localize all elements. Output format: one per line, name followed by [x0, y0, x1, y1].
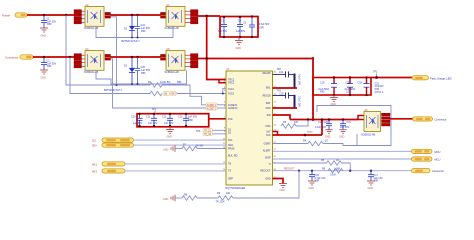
svg-text:1uF 50V: 1uF 50V	[236, 30, 245, 33]
svg-text:GND: GND	[167, 136, 173, 139]
IC U1 left pin names	[228, 79, 238, 181]
wire TRC2 stub	[219, 80, 226, 83]
capacitor C10	[137, 114, 143, 126]
svg-text:R50: R50	[141, 30, 146, 33]
svg-text:SCB0021-AB: SCB0021-AB	[361, 134, 376, 137]
wire loop1	[96, 26, 173, 37]
ground C19	[325, 130, 332, 134]
svg-text:TRC2: TRC2	[228, 82, 235, 85]
capacitor C11	[151, 114, 157, 126]
svg-text:C14: C14	[279, 71, 284, 74]
wire bank3 rect	[137, 114, 209, 127]
wire row1 mid	[111, 14, 161, 16]
node junction row1 C1	[43, 14, 46, 17]
pin stubs U3 left	[161, 12, 166, 18]
svg-text:TAC2: TAC2	[228, 93, 235, 96]
svg-text:SDA: SDA	[228, 144, 233, 147]
svg-text:1uF 50V: 1uF 50V	[164, 122, 173, 125]
capacitor C17	[368, 171, 374, 181]
ground below C1	[40, 28, 48, 32]
svg-text:REG18: REG18	[263, 95, 272, 98]
wire ACDET2 route	[111, 59, 207, 108]
wire ACDET1 stub	[217, 104, 226, 106]
capacitor C8	[366, 78, 368, 84]
resistor R1 on sense line	[150, 83, 162, 87]
IC U1 right pin numbers	[274, 71, 277, 178]
port I2C_SCL pill	[102, 138, 134, 142]
port WK2 pill	[102, 169, 125, 173]
resistor R8 bottom	[175, 197, 182, 199]
svg-text:GND: GND	[280, 189, 286, 192]
svg-text:1uF 50V: 1uF 50V	[133, 122, 142, 125]
capacitor C13	[183, 114, 189, 126]
wire bank2 feed to LED port	[371, 77, 412, 79]
wire SW to feed	[273, 115, 291, 120]
node junctions REGOUT	[298, 170, 300, 172]
ground C17	[367, 181, 375, 185]
svg-text:1uF 50V: 1uF 50V	[340, 126, 349, 129]
svg-text:X5R: X5R	[259, 26, 264, 29]
wire SxC riser	[321, 120, 323, 136]
svg-text:ALERT: ALERT	[263, 150, 271, 153]
resistor R3 CHG	[281, 124, 296, 128]
transceiver U3 pin block right	[191, 10, 199, 24]
svg-text:PxD: PxD	[228, 118, 233, 121]
resistor R7 PRAS	[175, 148, 182, 150]
capacitor C19	[326, 120, 332, 130]
wire BAT pin	[273, 107, 298, 109]
capacitor C24	[135, 15, 140, 38]
svg-text:BZT52C4V7LP-7: BZT52C4V7LP-7	[122, 40, 141, 43]
svg-text:SCL: SCL	[92, 140, 97, 142]
svg-text:TI: TI	[268, 163, 270, 166]
svg-text:1uF 50V: 1uF 50V	[218, 30, 227, 33]
node junction row2 C2	[43, 56, 46, 59]
transorb U2 pin block left	[74, 10, 82, 24]
IC U1 right pin names	[260, 72, 271, 181]
wire PxD feed	[209, 118, 226, 120]
svg-text:GND: GND	[325, 135, 331, 138]
svg-text:TP1: TP1	[373, 71, 378, 74]
ground IC	[279, 184, 287, 188]
wire row1 main	[27, 14, 76, 16]
ground below C2	[40, 70, 48, 74]
wire navy drop 2	[294, 95, 296, 108]
node junction D1	[131, 14, 134, 17]
net label ACDET1	[206, 103, 217, 107]
ground PRAS chain	[171, 145, 175, 152]
IC U1 left pin numbers	[223, 78, 226, 171]
svg-text:1.00K: 1.00K	[334, 167, 341, 170]
svg-text:GND: GND	[368, 187, 374, 190]
wire TI with resistor R5	[273, 162, 327, 164]
port Connector2 pill	[413, 117, 433, 121]
capacitor C2	[41, 57, 47, 70]
svg-text:GND: GND	[236, 47, 242, 50]
svg-text:GND: GND	[41, 35, 47, 38]
capacitor C12	[167, 114, 173, 126]
svg-text:BQ7791500RGER: BQ7791500RGER	[226, 187, 246, 190]
svg-text:SCB0021-AB: SCB0021-AB	[165, 27, 180, 30]
port ON_TLP pill	[412, 149, 433, 153]
net label ACDET2	[206, 107, 217, 111]
wire row2 main	[33, 56, 76, 58]
node junction top of rail	[205, 15, 208, 18]
svg-text:MCU: MCU	[435, 158, 441, 162]
wire WK2	[125, 170, 226, 172]
node junction D2	[131, 56, 134, 59]
svg-text:WK1: WK1	[92, 164, 98, 166]
svg-text:C12: C12	[162, 116, 167, 119]
transceiver U3 body	[166, 7, 185, 27]
svg-text:TP1: TP1	[152, 108, 157, 111]
node junction row1 sense	[65, 14, 68, 17]
testpoint label TP7	[203, 132, 213, 135]
node bank2 junctions	[333, 76, 335, 78]
capacitor C6	[333, 78, 335, 84]
svg-text:SB: SB	[164, 94, 168, 96]
wire row2 to BAT rail	[198, 58, 313, 60]
svg-text:WK2: WK2	[92, 172, 98, 174]
port WK1 pill	[102, 162, 125, 166]
wire sense vertical from row2	[70, 57, 150, 94]
svg-text:C10: C10	[131, 116, 136, 119]
net label SB_SNS	[163, 92, 169, 96]
svg-text:TP??: TP??	[307, 132, 313, 134]
wire ALERT to MCU	[273, 150, 412, 152]
wire CHG riser	[296, 120, 308, 127]
isolator U6 body	[364, 112, 381, 132]
wire SCL	[134, 139, 227, 141]
svg-text:C19: C19	[320, 81, 325, 84]
svg-text:TB: TB	[228, 163, 231, 166]
capacitor C25	[135, 57, 140, 84]
svg-text:TAC1: TAC1	[228, 88, 235, 91]
svg-text:GND: GND	[163, 149, 169, 152]
capacitor C7	[349, 78, 351, 84]
svg-text:Connector: Connector	[435, 117, 447, 121]
svg-text:100: 100	[226, 192, 231, 195]
wire GSMT with resistor R4	[273, 143, 309, 145]
resistor R2 on sense line 2	[150, 91, 162, 95]
port Connector3 pill	[412, 169, 431, 173]
wire BAT rail vertical	[312, 57, 314, 120]
svg-text:DISP: DISP	[265, 157, 271, 160]
svg-text:Power: Power	[2, 13, 10, 17]
transorb U2 body	[85, 7, 104, 27]
svg-text:GND: GND	[309, 187, 315, 190]
svg-text:GND: GND	[41, 77, 47, 80]
svg-text:0.1uF 16V: 0.1uF 16V	[298, 74, 301, 85]
svg-text:ACDET2: ACDET2	[228, 107, 238, 110]
svg-text:R50: R50	[141, 72, 146, 75]
capacitor C4	[237, 17, 243, 37]
svg-text:100: 100	[294, 121, 299, 124]
svg-text:BZT52C4V7LP-7: BZT52C4V7LP-7	[104, 89, 123, 92]
svg-text:R50: R50	[177, 81, 182, 84]
svg-text:REGOUT: REGOUT	[284, 168, 294, 170]
isolator U6 pin block right	[382, 113, 391, 126]
pin stubs U5 left	[161, 54, 166, 60]
svg-text:BLK_RD: BLK_RD	[228, 154, 238, 157]
svg-text:0.1W: 0.1W	[330, 174, 336, 177]
wire REGSRC feed	[290, 119, 358, 121]
node junction row2 sense	[69, 56, 72, 59]
transceiver U5 pin block right	[191, 54, 199, 68]
svg-text:TS: TS	[228, 170, 231, 173]
port Connector pill	[20, 55, 33, 59]
svg-text:TP_D2: TP_D2	[204, 134, 212, 136]
wire WK1	[125, 163, 226, 165]
svg-text:PRAS: PRAS	[228, 148, 235, 151]
svg-text:VDD: VDD	[265, 107, 270, 110]
svg-text:4-PC1.1: 4-PC1.1	[375, 91, 384, 94]
svg-text:GND: GND	[163, 198, 169, 201]
svg-text:1K 5%: 1K 5%	[196, 145, 204, 148]
svg-text:R50: R50	[47, 23, 52, 26]
svg-text:GND: GND	[339, 135, 345, 138]
wire EN1	[273, 87, 298, 89]
svg-text:TP_CLK: TP_CLK	[216, 201, 225, 204]
pin stubs U2 right	[105, 12, 111, 18]
capacitor C3	[221, 17, 227, 37]
wire SxT SxC joined	[273, 132, 278, 136]
svg-text:X5R: X5R	[188, 119, 193, 122]
svg-text:C20: C20	[324, 121, 329, 124]
svg-text:GSMT: GSMT	[264, 143, 271, 146]
svg-text:SCL: SCL	[228, 139, 233, 142]
svg-text:ACDET2: ACDET2	[207, 108, 217, 111]
svg-text:R50: R50	[320, 91, 325, 94]
wire U3 to bank1	[198, 15, 220, 17]
svg-text:BAT: BAT	[266, 102, 271, 105]
wire bank1 feed	[220, 17, 258, 38]
ground C20	[339, 130, 346, 134]
svg-text:SNS: SNS	[171, 94, 176, 96]
svg-text:SRP: SRP	[228, 178, 233, 181]
wire loop2	[96, 70, 187, 84]
node junction rail feed	[312, 118, 315, 121]
svg-text:SDA: SDA	[92, 144, 97, 147]
node junction rail row2	[205, 57, 208, 60]
wire bottom chain	[197, 197, 218, 199]
transorb U4 body	[85, 51, 104, 71]
ground bank2	[330, 95, 338, 102]
svg-text:MCU: MCU	[435, 150, 441, 154]
svg-text:SCB0021-AB: SCB0021-AB	[165, 71, 180, 74]
ground bottom chain	[171, 195, 175, 202]
capacitor C5	[249, 17, 255, 38]
svg-text:C20: C20	[346, 81, 351, 84]
svg-text:TP6: TP6	[196, 130, 201, 133]
ground C16	[308, 181, 316, 185]
capacitor C20	[340, 120, 346, 130]
wire sense vertical from row1	[66, 15, 150, 85]
node junction SxC	[304, 134, 307, 137]
svg-text:REG25: REG25	[263, 72, 272, 75]
wire red vertical rail to IC	[207, 16, 226, 80]
transorb U4 pin block left	[74, 54, 82, 68]
transceiver U5 body	[166, 51, 185, 71]
wire row2 mid	[111, 56, 161, 58]
wire ACDET2 stub	[217, 107, 226, 109]
svg-text:Connector: Connector	[5, 55, 18, 59]
svg-text:C15: C15	[279, 93, 284, 96]
svg-text:10.0K 5%: 10.0K 5%	[160, 81, 171, 84]
pin stubs U4 right	[105, 54, 111, 60]
diode D1	[129, 15, 135, 38]
wire ACDET1 route	[111, 17, 117, 85]
svg-text:C19: C19	[318, 121, 323, 124]
wire isolator frame loop	[317, 106, 391, 146]
svg-text:GND: GND	[265, 178, 271, 181]
capacitor C14	[286, 71, 289, 77]
svg-text:0.1uF 50V: 0.1uF 50V	[315, 126, 326, 129]
capacitor C15	[286, 93, 289, 99]
testpoint TP1	[154, 111, 156, 114]
node bank3 junctions	[138, 113, 140, 115]
svg-text:CHG: CHG	[265, 125, 270, 128]
testpoint TP1 tap	[376, 74, 378, 78]
wire GND pin hook	[273, 179, 284, 184]
wire REG18 bypass	[273, 95, 286, 97]
svg-text:C20: C20	[346, 91, 351, 94]
wire REGOUT line	[273, 170, 412, 172]
IC U1 body	[226, 71, 273, 185]
svg-text:C21: C21	[347, 121, 352, 124]
port Power pill	[15, 13, 27, 17]
node junctions feed caps	[328, 118, 331, 121]
capacitor C1	[41, 15, 47, 28]
svg-text:C18: C18	[358, 81, 363, 84]
wire isolator out	[390, 118, 413, 120]
wire isolator input stubs	[358, 116, 364, 120]
wire SDA	[134, 144, 227, 146]
svg-text:R50: R50	[47, 65, 52, 68]
node bank1 junctions	[223, 16, 225, 18]
wire bank2 rect	[313, 78, 371, 96]
port Pack_Gauge_LED pill	[412, 76, 429, 80]
wire REG25 bypass	[273, 73, 286, 75]
svg-text:SxC: SxC	[266, 134, 271, 137]
port ON_DIS pill	[412, 157, 433, 161]
svg-text:EN1: EN1	[266, 87, 271, 90]
svg-text:1uF 50V: 1uF 50V	[148, 122, 157, 125]
port I2C_SDA pill	[102, 143, 134, 147]
svg-text:Pack_Gauge_LED: Pack_Gauge_LED	[430, 76, 452, 80]
svg-text:0.1uF 16V: 0.1uF 16V	[298, 96, 301, 107]
capacitor C16	[309, 171, 315, 181]
svg-text:REGOUT: REGOUT	[260, 170, 271, 173]
svg-text:C11: C11	[146, 116, 151, 119]
svg-text:Connector: Connector	[432, 169, 444, 173]
svg-text:1K: 1K	[325, 139, 328, 142]
ground bank3	[166, 126, 174, 134]
diode D2	[129, 57, 135, 84]
svg-text:C13: C13	[178, 116, 183, 119]
resistor R6 on REGOUT	[328, 169, 343, 173]
wire DISP to MCU	[273, 158, 412, 160]
wire navy drop 1	[294, 74, 296, 89]
ground bank1	[235, 37, 243, 45]
